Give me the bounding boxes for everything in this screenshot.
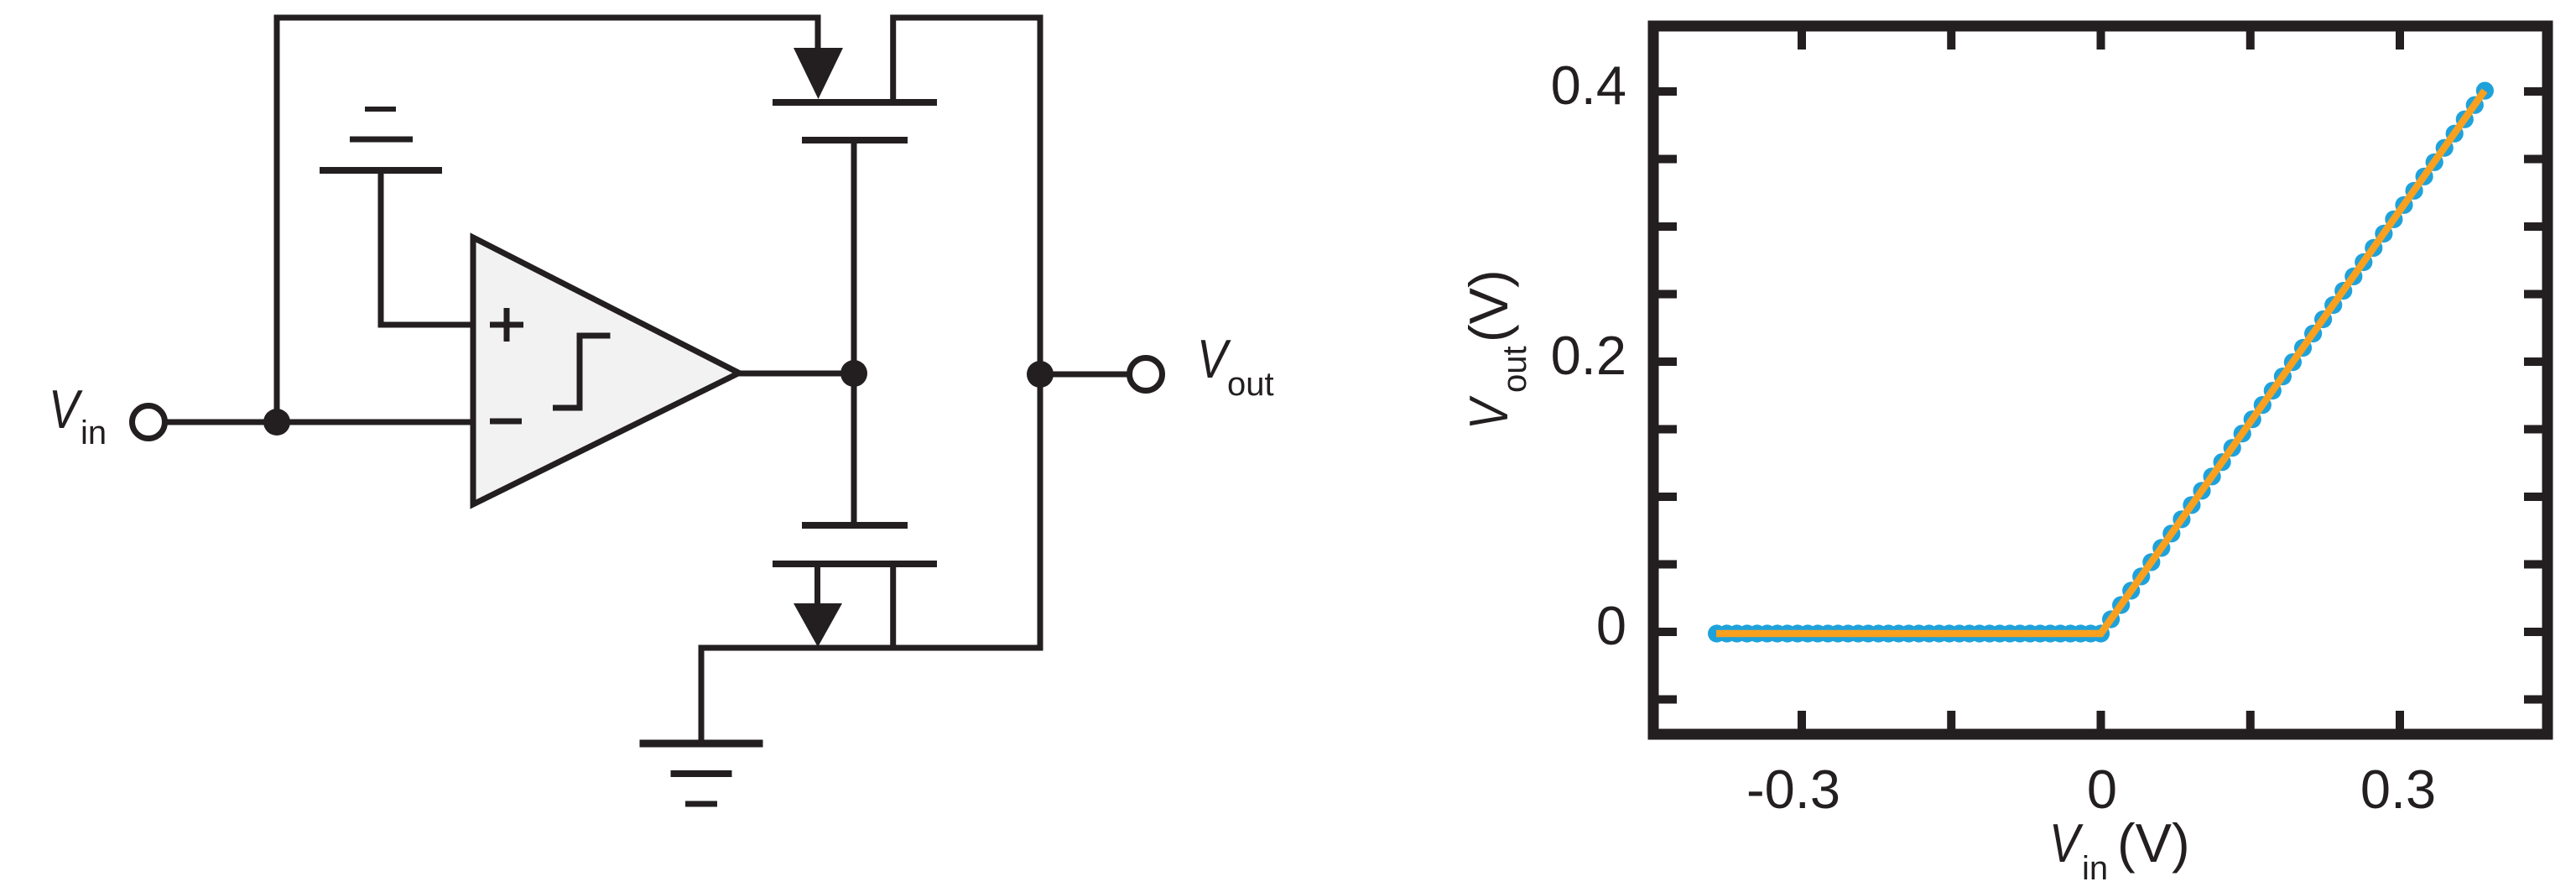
svg-text:0: 0 [2087,759,2117,820]
svg-text:in: in [2082,850,2108,887]
svg-text:0.4: 0.4 [1551,55,1626,116]
svg-text:V: V [1459,395,1520,430]
svg-text:-0.3: -0.3 [1746,759,1840,820]
svg-text:V: V [2049,813,2084,874]
svg-text:out: out [1496,346,1533,393]
svg-text:out: out [1227,366,1274,403]
svg-text:0: 0 [1596,595,1626,656]
svg-text:V: V [1197,329,1231,390]
svg-text:(V): (V) [1458,269,1519,342]
svg-text:(V): (V) [2117,812,2190,874]
svg-text:0.3: 0.3 [2360,759,2436,820]
svg-text:0.2: 0.2 [1551,325,1626,386]
svg-text:in: in [81,415,107,451]
svg-text:V: V [49,379,83,441]
